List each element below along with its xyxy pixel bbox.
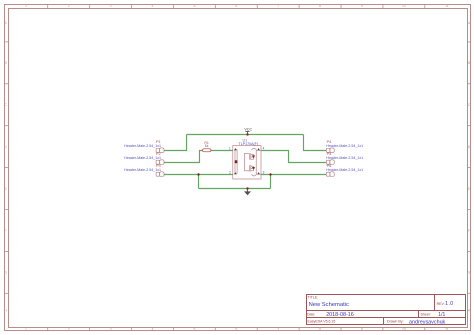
frame ruler ticks bottom [48, 328, 425, 331]
svg-text:3: 3 [263, 171, 265, 175]
title block outline [307, 295, 466, 325]
title block Date label [307, 312, 315, 316]
svg-text:10: 10 [402, 4, 406, 8]
frame ruler ticks top [48, 5, 425, 9]
svg-text:1/1: 1/1 [438, 312, 445, 318]
U1 pin 4 number [263, 147, 265, 151]
wire P1 to top rail corner [164, 135, 187, 151]
svg-text:8: 8 [319, 327, 321, 331]
svg-text:2018-08-16: 2018-08-16 [326, 312, 354, 318]
svg-text:Date:: Date: [307, 312, 315, 316]
header P1 [156, 148, 164, 153]
svg-text:1k: 1k [205, 144, 209, 148]
svg-text:Header-Male-2.54_1x1: Header-Male-2.54_1x1 [326, 156, 363, 160]
junction right on row 3 [269, 173, 271, 175]
U1 value TLP170A(F) [239, 142, 259, 146]
wire top rail down to P4 [304, 135, 327, 151]
title block REV value [445, 301, 453, 307]
svg-text:3: 3 [110, 4, 112, 8]
svg-text:6: 6 [235, 327, 237, 331]
title block DrawnBy label [387, 320, 404, 324]
resistor R1 designator [204, 141, 209, 145]
U1 designator [243, 138, 248, 142]
wire R1 to U1 pin 1 [211, 150, 233, 152]
svg-text:C: C [4, 103, 7, 107]
svg-text:6: 6 [235, 4, 237, 8]
resistor R1 [203, 149, 211, 152]
svg-text:E: E [4, 187, 7, 191]
svg-text:Header-Male-2.54_1x1: Header-Male-2.54_1x1 [124, 156, 161, 160]
wire left drop to ground rail [198, 175, 200, 189]
header P2 value label [124, 156, 161, 160]
U1 drain bus and arcs [252, 148, 261, 176]
svg-text:G: G [4, 271, 7, 275]
svg-text:7: 7 [277, 327, 279, 331]
svg-text:REV:: REV: [437, 302, 445, 306]
svg-text:Drawn By:: Drawn By: [387, 320, 404, 324]
header P4 [326, 148, 334, 153]
svg-text:9: 9 [361, 4, 363, 8]
svg-text:TITLE:: TITLE: [308, 296, 319, 300]
wire ground rail [199, 188, 271, 190]
svg-text:F: F [468, 229, 470, 233]
title block EasyEDA version [308, 320, 336, 324]
frame ruler ticks left [5, 42, 9, 293]
U1 mosfet bottom [249, 165, 255, 172]
U1 pin 4 arrow [257, 148, 259, 150]
U1 pin 3 number [263, 171, 265, 175]
U1 pin 1 arrow [234, 148, 236, 150]
svg-text:7: 7 [277, 4, 279, 8]
svg-text:5: 5 [193, 327, 195, 331]
svg-text:Header-Male-2.54_1x1: Header-Male-2.54_1x1 [326, 144, 363, 148]
svg-text:New Schematic: New Schematic [309, 302, 349, 308]
power flag VCC [244, 127, 252, 134]
junction VCC on top rail [246, 133, 248, 135]
op-to relay U1 body [233, 146, 261, 180]
title block title text [309, 302, 349, 308]
U1 pin 3 arrow [257, 172, 259, 174]
svg-text:A: A [4, 21, 7, 25]
svg-text:EasyEDA V5.6.15: EasyEDA V5.6.15 [308, 320, 336, 324]
svg-text:3: 3 [110, 327, 112, 331]
U1 pin 2 number [229, 171, 231, 175]
svg-text:5: 5 [193, 4, 195, 8]
ground junction dot [246, 187, 248, 189]
title block Date value [326, 312, 354, 318]
wire P2 up to R1 [164, 151, 202, 163]
svg-text:4: 4 [263, 147, 265, 151]
svg-text:8: 8 [319, 4, 321, 8]
header P2 [156, 160, 164, 165]
svg-text:Header-Male-2.54_1x1: Header-Male-2.54_1x1 [326, 168, 363, 172]
title block Sheet label [421, 312, 431, 316]
U1 mosfet top [249, 153, 255, 160]
wire U1 pin 3 to P6 [261, 174, 326, 176]
header P4 designator [327, 140, 332, 144]
svg-text:Header-Male-2.54_1x1: Header-Male-2.54_1x1 [124, 144, 161, 148]
header P2 designator [156, 152, 161, 156]
svg-text:1: 1 [25, 4, 27, 8]
header P6 value label [326, 168, 363, 172]
wire P3 to U1 pin 2 [164, 174, 233, 176]
svg-text:10: 10 [402, 327, 406, 331]
svg-text:1.0: 1.0 [445, 301, 453, 307]
header P5 designator [327, 152, 332, 156]
U1 pin 1 number [229, 147, 231, 151]
svg-text:D: D [4, 145, 7, 149]
svg-text:H: H [4, 309, 7, 313]
U1 input LED [235, 149, 238, 173]
U1 gate bracket [245, 154, 250, 171]
title block DrawnBy value [409, 319, 446, 325]
svg-text:2: 2 [68, 4, 70, 8]
wire right drop to ground rail [270, 175, 272, 189]
frame ruler letters right [468, 21, 471, 313]
svg-text:4: 4 [152, 327, 154, 331]
svg-text:VCC: VCC [244, 127, 252, 131]
header P5 value label [326, 156, 363, 160]
svg-text:Sheet:: Sheet: [421, 312, 431, 316]
svg-text:9: 9 [361, 327, 363, 331]
header P6 [326, 172, 334, 177]
header P1 value label [124, 144, 161, 148]
title block row divider 1 [307, 310, 466, 312]
title block DrawnBy divider [383, 318, 385, 325]
frame ruler letters left [4, 21, 7, 313]
svg-text:11: 11 [445, 327, 449, 331]
svg-text:F: F [5, 229, 7, 233]
title block REV divider [434, 295, 436, 311]
svg-text:2: 2 [68, 327, 70, 331]
header P3 value label [124, 168, 161, 172]
svg-text:andreysavchuk: andreysavchuk [409, 319, 446, 325]
wire U1 pin 4 to P5 [261, 151, 326, 163]
frame ruler numbers bottom [25, 327, 449, 331]
title block row divider 2 [307, 317, 466, 319]
ground [244, 189, 251, 196]
wire top rail VCC net [187, 134, 304, 136]
svg-text:G: G [468, 271, 471, 275]
header P6 designator [327, 164, 332, 168]
header P1 designator [156, 140, 161, 144]
frame ruler ticks right [468, 42, 471, 293]
title block Sheet divider [418, 311, 420, 318]
header P3 [156, 172, 164, 177]
header P3 designator [156, 164, 161, 168]
svg-text:2: 2 [229, 171, 231, 175]
title block Sheet value [438, 312, 445, 318]
svg-text:1: 1 [25, 327, 27, 331]
resistor R1 value 1k [205, 144, 209, 148]
svg-text:4: 4 [152, 4, 154, 8]
header P5 [326, 160, 334, 165]
junction left on row 3 [197, 173, 199, 175]
title block TITLE label [308, 296, 319, 300]
title block REV label [437, 302, 445, 306]
svg-text:TLP170A(F): TLP170A(F) [239, 142, 259, 146]
frame ruler numbers top [25, 4, 449, 8]
svg-text:Header-Male-2.54_1x1: Header-Male-2.54_1x1 [124, 168, 161, 172]
svg-text:11: 11 [445, 4, 449, 8]
svg-text:B: B [4, 61, 7, 65]
header P4 value label [326, 144, 363, 148]
svg-text:1: 1 [229, 147, 231, 151]
U1 pin 2 arrow [234, 172, 236, 174]
